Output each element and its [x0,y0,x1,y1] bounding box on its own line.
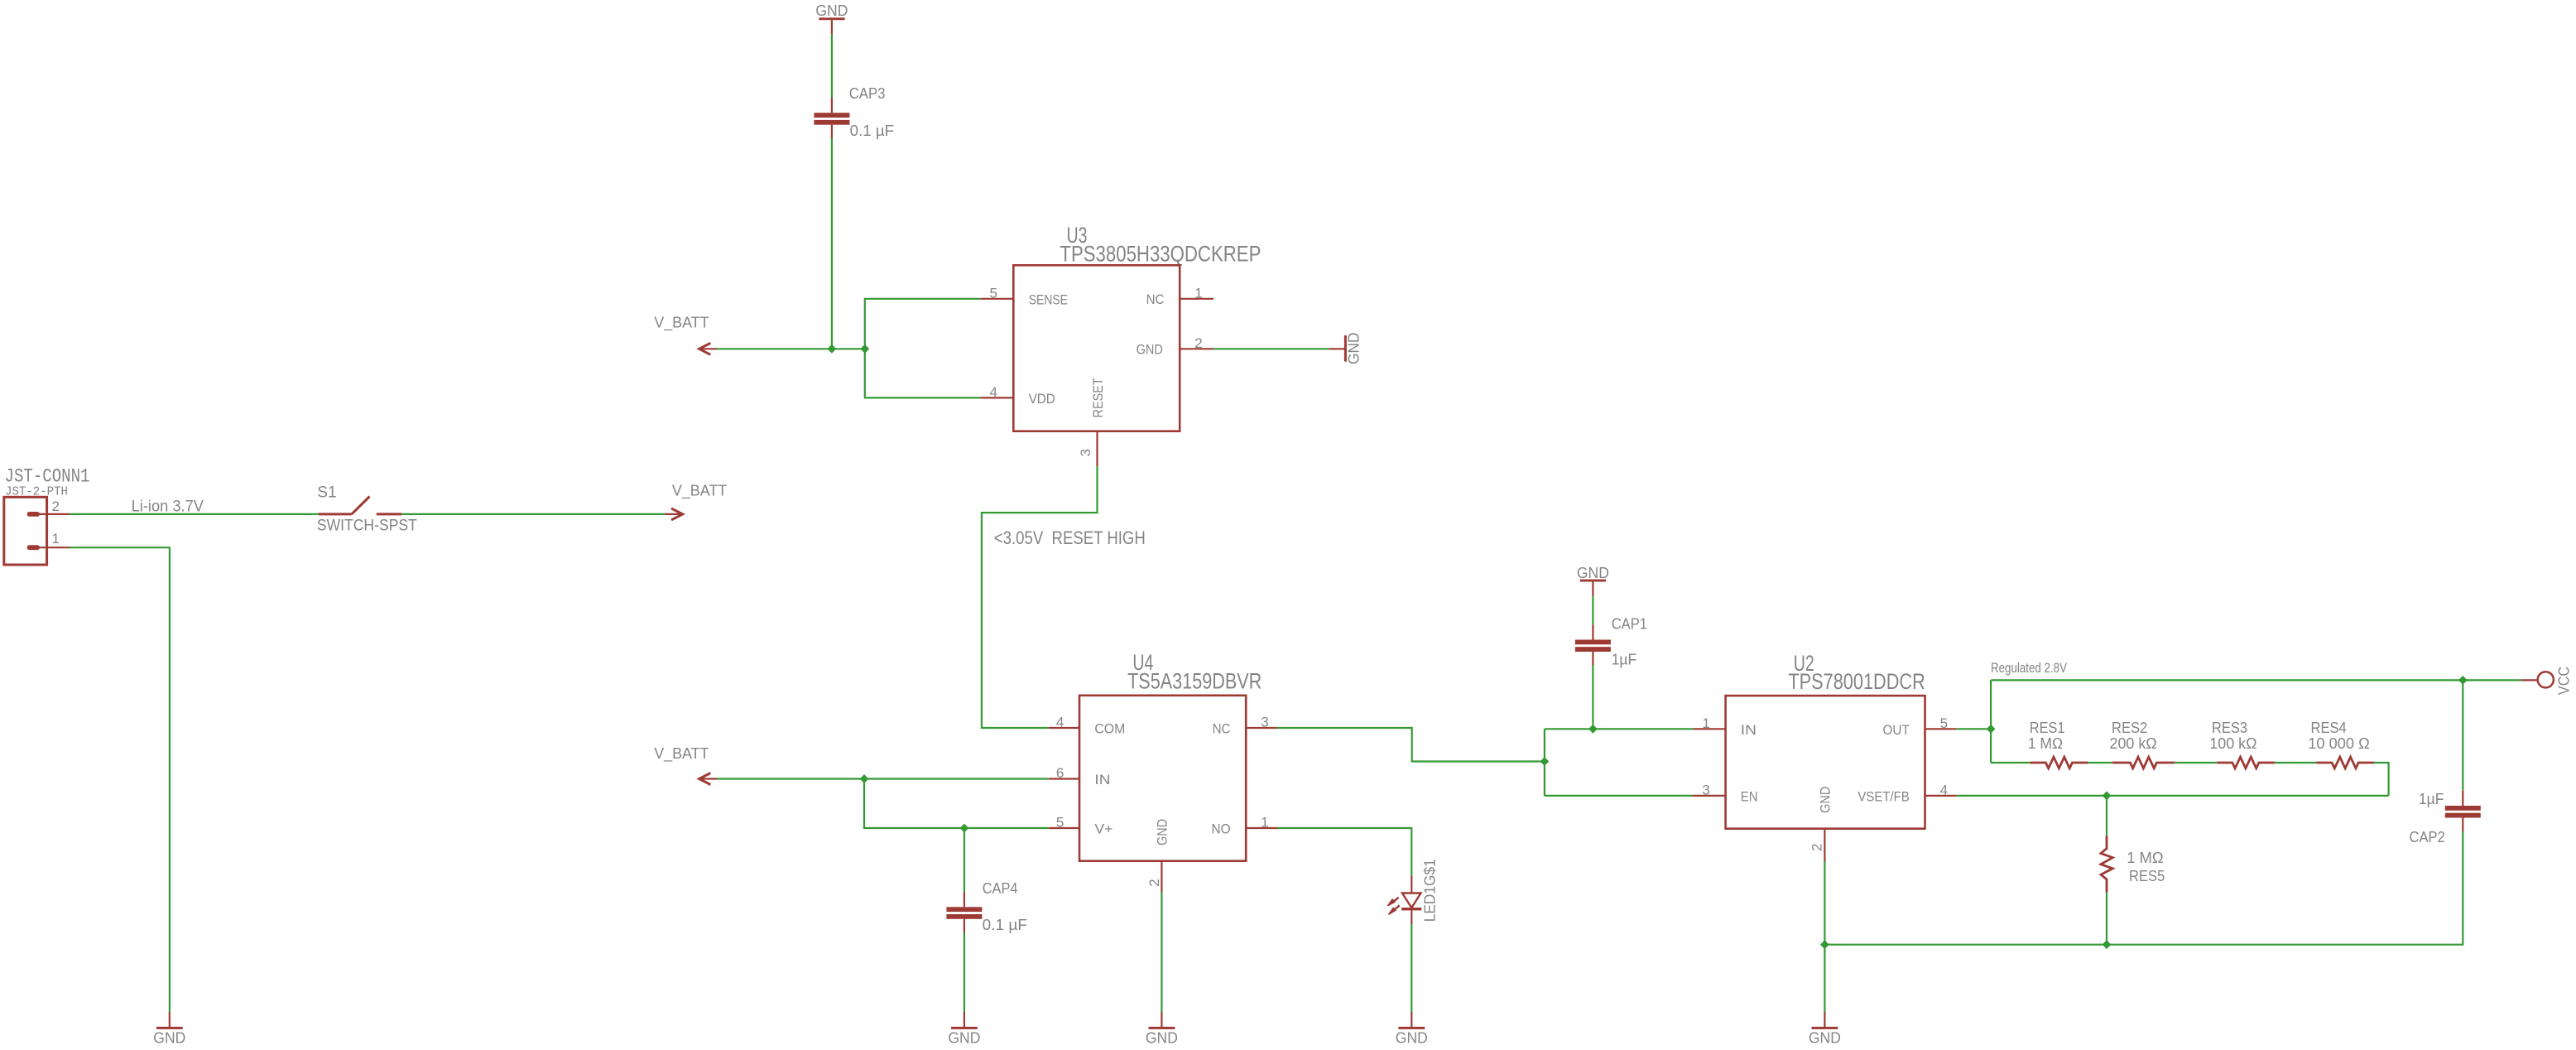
svg-text:CAP4: CAP4 [983,879,1018,897]
U3 pin 4 VDD [980,384,1055,407]
wire JST pin1 to ground [70,547,170,1012]
svg-text:RES5: RES5 [2129,867,2165,884]
U4 pin 6 IN [1049,765,1111,787]
svg-text:10 000 Ω: 10 000 Ω [2308,735,2370,752]
wire to SENSE [865,299,980,349]
svg-text:3: 3 [1702,783,1709,798]
svg-text:V+: V+ [1094,821,1113,837]
svg-text:1: 1 [1194,286,1202,301]
svg-text:VSET/FB: VSET/FB [1858,788,1909,804]
IC U4 TS5A3159DBVR [1079,650,1262,861]
resistor RES1 [2031,757,2088,768]
svg-text:1µF: 1µF [1612,651,1637,668]
junction V+/CAP4 [960,824,969,833]
net arrow V_BATT (left, U4) [699,773,717,785]
wire V+ to CAP4 [964,828,965,892]
svg-text:V_BATT: V_BATT [654,314,709,332]
U2 pin 5 OUT [1883,715,1957,738]
junction CAP2/VCC [2458,676,2468,685]
capacitor CAP3 [814,98,849,138]
wire GND to CAP3 [831,34,833,98]
wire CAP4 to ground [964,932,965,1012]
wire LED to ground [1411,924,1412,1012]
svg-text:GND: GND [1396,1029,1428,1047]
ground (right of U3, rotated) [1329,332,1362,364]
ground (top, above CAP3) [815,2,848,34]
U4 pin 3 NC [1213,715,1278,737]
resistor RES3 [2217,757,2274,768]
svg-text:RES4: RES4 [2311,719,2347,736]
resistor RES2 [2112,757,2175,768]
svg-text:TPS78001DDCR: TPS78001DDCR [1788,669,1925,694]
wire GND to CAP1 [1592,596,1593,625]
svg-text:NO: NO [1212,821,1231,837]
svg-text:5: 5 [990,286,997,301]
svg-text:VDD: VDD [1029,391,1055,407]
svg-text:LED1G$1: LED1G$1 [1421,859,1439,922]
svg-text:3: 3 [1078,449,1093,456]
junction CAP1/IN [1588,725,1598,734]
U4 pin 2 GND [1146,819,1170,892]
junction OUT [1987,725,1996,734]
svg-text:GND: GND [1137,342,1163,358]
wire V_BATT horizontal [717,348,865,349]
junction CAP3/V_BATT [828,344,837,354]
svg-text:RES2: RES2 [2112,719,2147,736]
ground (JST) [153,1012,185,1047]
wire to U2 EN [1545,795,1692,797]
svg-text:TS5A3159DBVR: TS5A3159DBVR [1127,669,1262,694]
svg-text:1: 1 [52,531,60,547]
wire U3 GND pin to ground [1214,348,1329,349]
wire VSET/FB [1957,795,2389,797]
JST pin 2 [27,499,70,517]
wire to VDD [865,349,980,397]
wire VSET to RES5 [2106,796,2107,836]
svg-text:JST-CONN1: JST-CONN1 [5,466,90,488]
svg-text:2: 2 [1194,335,1202,351]
svg-text:1: 1 [1702,715,1709,731]
svg-text:IN: IN [1741,722,1757,738]
svg-text:GND: GND [1146,1029,1178,1047]
svg-text:2: 2 [52,499,60,514]
wire OUT [1957,728,1992,730]
wire to U2 IN [1545,728,1694,730]
capacitor CAP1 [1575,624,1611,665]
wire OUT riser [1990,680,1992,763]
ground (CAP4) [948,1012,980,1047]
svg-text:1: 1 [1261,815,1268,831]
net arrow V_BATT (right) [665,508,683,520]
supply VCC [2521,667,2572,695]
svg-text:GND: GND [1818,787,1833,813]
junction RES5/rail [2103,940,2112,949]
svg-text:GND: GND [815,2,848,19]
wire RES5 to bottom rail [2106,893,2107,945]
svg-text:1µF: 1µF [2419,790,2444,807]
svg-text:2: 2 [1146,879,1162,886]
U3 pin 1 NC [1146,286,1214,307]
connector JST-CONN1 [4,466,90,566]
U4 pin 5 V+ [1049,815,1113,837]
svg-text:S1: S1 [317,484,336,502]
wire switch to V_BATT [401,513,666,515]
resistor RES5 [2101,836,2112,892]
wire CAP1 to IN net [1592,665,1593,729]
wire JST pin2 to switch [70,513,319,515]
U2 pin 2 GND [1809,787,1833,862]
wire VCC rail [1991,679,2521,681]
JST pin 1 [27,531,70,550]
switch S1 SWITCH-SPST [317,484,417,535]
wire U4 GND pin to ground [1161,892,1162,1012]
junction RES5/VSET [2103,792,2112,801]
U3 pin 2 GND [1137,335,1214,358]
svg-text:EN: EN [1741,788,1758,804]
svg-text:1 MΩ: 1 MΩ [2028,735,2063,752]
svg-text:RES1: RES1 [2030,719,2065,736]
ground (LED) [1396,1012,1428,1047]
capacitor CAP4 [946,892,982,932]
wire RESET to COM [982,466,1098,728]
svg-text:200 kΩ: 200 kΩ [2110,735,2157,752]
svg-text:CAP2: CAP2 [2410,828,2445,845]
svg-text:0.1 µF: 0.1 µF [850,122,894,139]
svg-text:4: 4 [1940,783,1948,798]
svg-text:TPS3805H33QDCKREP: TPS3805H33QDCKREP [1060,242,1261,267]
svg-text:3: 3 [1261,715,1268,730]
svg-text:4: 4 [990,384,997,400]
ground (U2) [1809,1012,1841,1047]
junction U2 GND/rail [1820,940,1829,949]
IC U3 TPS3805H33QDCKREP [1013,223,1261,431]
junction NC net [1540,757,1550,766]
svg-text:<3.05V RESET HIGH: <3.05V RESET HIGH [994,527,1146,548]
wire RES2-RES3 [2175,762,2217,763]
svg-text:6: 6 [1056,765,1064,781]
svg-text:0.1 µF: 0.1 µF [983,916,1027,933]
svg-text:Li-ion 3.7V: Li-ion 3.7V [132,499,204,516]
svg-text:SENSE: SENSE [1029,291,1068,307]
wire CAP3 to V_BATT net [831,138,833,349]
IC U2 TPS78001DDCR [1726,651,1925,829]
wire RES3-RES4 [2275,762,2317,763]
svg-text:NC: NC [1146,291,1165,307]
wire vertical IN/EN tie [1544,729,1545,796]
svg-text:5: 5 [1940,715,1948,731]
wire to RES1 [1991,762,2031,763]
wire bottom rail [1824,831,2463,945]
U3 pin 3 RESET [1078,378,1106,466]
svg-text:GND: GND [1155,819,1170,845]
ground (top, above CAP1) [1577,564,1609,596]
U3 pin 5 SENSE [980,286,1068,308]
svg-text:5: 5 [1056,815,1064,831]
svg-text:4: 4 [1056,715,1064,730]
U2 pin 4 VSET/FB [1858,783,1956,805]
wire U2 GND pin down [1824,862,1825,1013]
svg-text:V_BATT: V_BATT [672,482,727,500]
wire RES1-RES2 [2088,762,2112,763]
svg-text:VCC: VCC [2554,667,2572,695]
svg-text:IN: IN [1094,772,1110,787]
svg-text:GND: GND [948,1029,980,1047]
junction V_BATT branch [860,344,869,354]
svg-text:1 MΩ: 1 MΩ [2127,849,2164,866]
svg-text:CAP3: CAP3 [849,84,886,102]
svg-text:GND: GND [1577,564,1609,581]
svg-text:RES3: RES3 [2212,719,2247,736]
svg-text:GND: GND [1809,1029,1841,1047]
resistor RES4 [2316,757,2374,768]
wire branch to V+ [864,779,1049,829]
svg-text:2: 2 [1809,844,1825,851]
svg-text:100 kΩ: 100 kΩ [2209,735,2256,752]
U2 pin 1 IN [1694,715,1757,738]
svg-text:GND: GND [1344,332,1362,364]
wire U4 NO to LED [1277,828,1411,875]
capacitor CAP2 [2445,791,2481,831]
junction V_BATT/V+ branch [860,774,869,783]
U2 pin 3 EN [1692,783,1757,805]
wire V_BATT to IN [717,778,1049,779]
svg-text:GND: GND [153,1029,185,1047]
net arrow V_BATT (left) [699,343,717,354]
wire VCC to CAP2 [2462,680,2463,790]
svg-text:V_BATT: V_BATT [654,744,709,763]
LED LED1G$1 [1388,859,1439,924]
svg-text:SWITCH-SPST: SWITCH-SPST [317,518,417,535]
svg-text:COM: COM [1094,721,1125,737]
U4 pin 4 COM [1049,715,1126,737]
svg-text:CAP1: CAP1 [1612,615,1647,633]
svg-text:NC: NC [1213,721,1231,737]
svg-text:Regulated 2.8V: Regulated 2.8V [1991,660,2068,676]
U4 pin 1 NO [1212,815,1278,837]
wire U4 NC to U2 input net [1277,728,1545,762]
svg-text:RESET: RESET [1090,378,1106,417]
wire RES4 to VSET net [2374,763,2389,796]
svg-text:OUT: OUT [1883,722,1910,738]
ground (U4) [1146,1012,1178,1047]
